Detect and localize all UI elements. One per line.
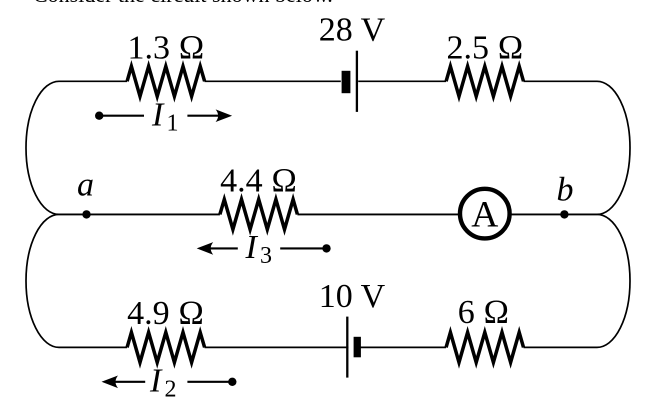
- svg-text:Consider the circuit shown bel: Consider the circuit shown below.: [33, 0, 333, 7]
- battery B2 10 V: [347, 317, 361, 378]
- label b: [557, 171, 574, 208]
- node a: [82, 210, 90, 218]
- svg-text:I: I: [245, 229, 259, 266]
- wire: bottom loop: [26, 214, 630, 347]
- svg-text:28 V: 28 V: [319, 12, 386, 49]
- current I1 dot: [95, 112, 103, 120]
- svg-text:A: A: [471, 195, 498, 236]
- current I3 dot: [322, 244, 330, 252]
- label I1: [151, 96, 179, 136]
- svg-text:1: 1: [167, 111, 179, 137]
- svg-text:10 V: 10 V: [319, 278, 386, 315]
- current I3 arrow: [197, 242, 238, 255]
- current I1 tail wire: [99, 115, 144, 117]
- label I3: [245, 229, 273, 269]
- svg-text:1.3 Ω: 1.3 Ω: [127, 30, 204, 67]
- label 6 ohm: [458, 294, 510, 331]
- resistor R5 6 ohm: [446, 332, 524, 362]
- svg-text:2: 2: [165, 377, 177, 403]
- label 1.3 ohm: [127, 30, 204, 67]
- label 4.4 ohm: [220, 163, 297, 200]
- resistor R3 4.4 ohm: [220, 199, 298, 229]
- resistor R4 4.9 ohm: [127, 332, 205, 362]
- label 28 V: [319, 12, 386, 49]
- svg-text:b: b: [557, 171, 574, 208]
- svg-text:4.9 Ω: 4.9 Ω: [127, 295, 204, 332]
- resistor R2 2.5 ohm: [446, 66, 524, 96]
- current I2 dot: [228, 378, 236, 386]
- svg-text:I: I: [149, 362, 163, 399]
- label 4.9 ohm: [127, 295, 204, 332]
- svg-text:2.5 Ω: 2.5 Ω: [446, 30, 523, 67]
- label I2: [149, 362, 177, 402]
- label 2.5 ohm: [446, 30, 523, 67]
- current I2 tail wire: [187, 381, 232, 383]
- resistor R1 1.3 ohm: [127, 66, 205, 96]
- label a: [77, 167, 94, 204]
- svg-text:3: 3: [260, 243, 272, 269]
- svg-text:4.4 Ω: 4.4 Ω: [220, 163, 297, 200]
- wire: top loop: [26, 81, 630, 214]
- current I1 arrow: [187, 109, 232, 122]
- battery B1 28 V: [341, 51, 358, 112]
- current I2 arrow: [102, 376, 146, 389]
- current I3 tail wire: [280, 247, 326, 249]
- ammeter A: [460, 189, 510, 239]
- node b: [560, 210, 568, 218]
- label 10 V: [319, 278, 386, 315]
- svg-text:I: I: [151, 96, 165, 133]
- svg-text:6 Ω: 6 Ω: [458, 294, 510, 331]
- svg-text:a: a: [77, 167, 94, 204]
- caption text (clipped at top): [33, 0, 333, 7]
